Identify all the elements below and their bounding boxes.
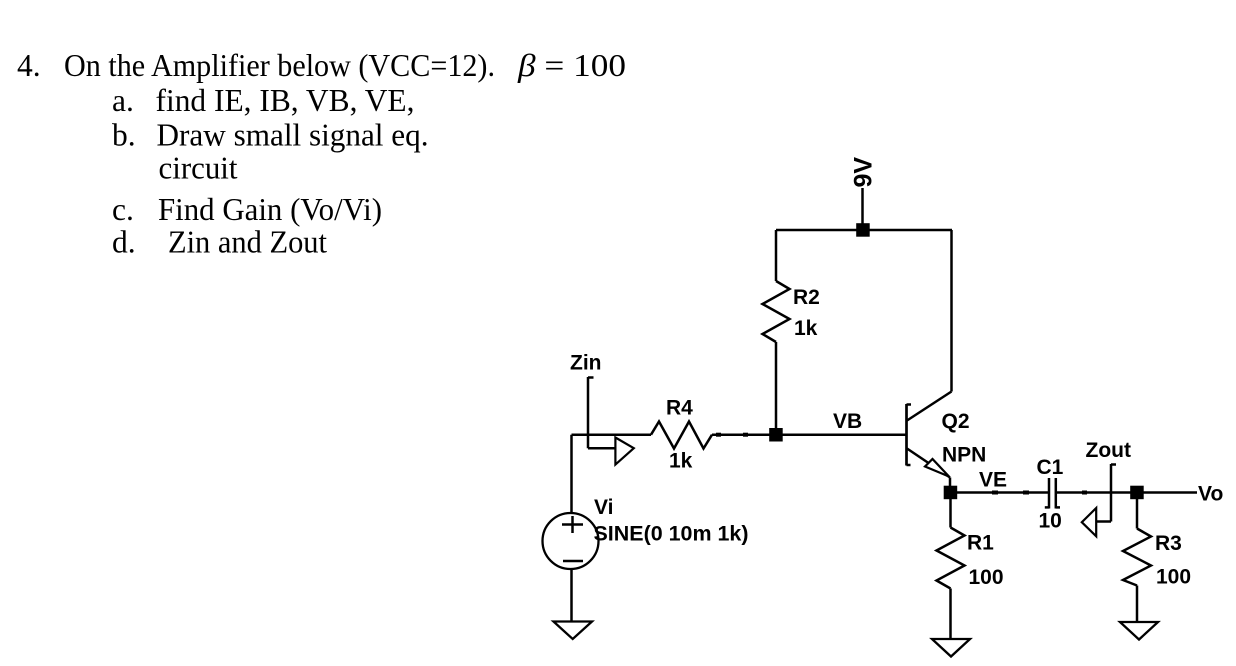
svg-text:VE: VE [979,469,1007,492]
wire top rail [776,229,952,232]
capacitor C1 [1045,478,1060,509]
svg-text:Q2: Q2 [942,410,970,433]
svg-text:NPN: NPN [942,444,986,467]
wire VE to R1 [949,493,952,528]
svg-text:SINE(0 10m 1k): SINE(0 10m 1k) [594,523,749,546]
svg-text:R1: R1 [967,532,994,555]
svg-text:circuit: circuit [159,150,238,185]
power label 9V [850,157,878,188]
wire joint marks [716,435,1087,493]
list item c [112,192,382,227]
wire Vo node to R3 [1136,493,1139,529]
svg-text:Zin and Zout: Zin and Zout [168,225,327,260]
wire node to Vo label [1137,491,1197,494]
voltage source Vi [543,513,599,569]
wire input drop to source [570,435,573,513]
ground of source [554,622,593,640]
svg-text:10: 10 [1039,510,1062,533]
wire C1 to node Vo [1056,491,1137,494]
transistor Q2 [907,392,952,478]
svg-text:100: 100 [969,566,1004,589]
svg-text:R4: R4 [666,397,693,420]
svg-text:Find Gain (Vo/Vi): Find Gain (Vo/Vi) [158,192,382,227]
wire R2 to node VB [775,342,778,435]
resistor R1 [937,528,965,589]
svg-text:R3: R3 [1155,532,1182,555]
wire VE to C1 [951,491,1049,494]
junction node Vo [1130,486,1144,500]
list item b line 2 [159,150,238,185]
wire rail to R2 [775,230,778,281]
svg-text:100: 100 [1156,566,1191,589]
junction node VB [769,428,783,442]
junction on VCC rail [856,223,870,237]
svg-text:a.: a. [112,83,134,118]
wire input left segment [572,433,652,436]
list item a [112,83,415,118]
svg-text:b.: b. [112,118,136,153]
svg-text:Vi: Vi [594,496,613,519]
resistor R4 [651,422,712,449]
svg-text:β = 100: β = 100 [517,48,626,83]
svg-text:4.: 4. [17,48,41,83]
ground of R3 [1120,622,1158,640]
svg-text:Draw small signal eq.: Draw small signal eq. [157,118,429,153]
wire collector to rail [950,230,953,392]
resistor R3 [1123,529,1151,586]
svg-text:On the Amplifier below (VCC=12: On the Amplifier below (VCC=12). [64,48,495,83]
svg-text:Zout: Zout [1086,439,1131,462]
svg-text:VB: VB [833,410,862,433]
svg-text:9V: 9V [850,157,878,188]
wire R1 to ground [949,589,952,640]
ground of R1 [932,639,970,657]
svg-text:C1: C1 [1037,456,1064,479]
svg-text:1k: 1k [669,450,693,473]
svg-text:c.: c. [112,192,134,227]
list item b [112,118,429,153]
wire R3 to ground [1136,586,1139,623]
list item d [112,225,327,260]
svg-text:Zin: Zin [570,352,602,375]
Zout probe arrow [1082,508,1111,536]
wire 9V to rail [861,188,864,230]
svg-text:1k: 1k [794,317,818,340]
svg-text:d.: d. [112,225,136,260]
resistor R2 [763,281,790,342]
Zin probe stem [588,377,594,448]
wire Vi to ground [570,569,573,622]
wire VB to base [776,433,907,436]
junction node VE [944,486,958,500]
Zout probe stem [1111,464,1116,522]
svg-text:Vo: Vo [1198,483,1223,506]
wire R4 to VB [712,433,776,436]
Zin probe arrow [588,438,634,465]
problem statement line 1 [17,48,626,83]
wire emitter to node VE [949,478,952,490]
svg-text:R2: R2 [793,286,820,309]
svg-text:find IE, IB, VB, VE,: find IE, IB, VB, VE, [156,83,415,118]
